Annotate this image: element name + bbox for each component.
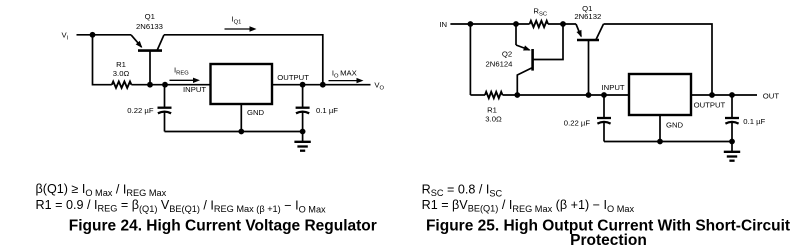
caption Figure 25 line 2 bbox=[570, 232, 647, 249]
wire IN to RSC bbox=[450, 23, 529, 25]
label VI bbox=[62, 31, 69, 42]
svg-text:R1 = 0.9 / IREG = β(Q1) VBE(Q1: R1 = 0.9 / IREG = β(Q1) VBE(Q1) / IREG M… bbox=[36, 198, 327, 215]
node C2 junction bbox=[300, 82, 306, 88]
formula beta(Q1) bbox=[36, 182, 167, 198]
label OUT bbox=[763, 91, 780, 100]
label OUTPUT right bbox=[694, 101, 726, 110]
node IN junction bbox=[468, 21, 474, 27]
svg-text:0.22 µF: 0.22 µF bbox=[127, 106, 154, 115]
capacitor C2 0.1uF bbox=[296, 85, 339, 132]
svg-text:INPUT: INPUT bbox=[183, 85, 206, 94]
svg-text:2N6124: 2N6124 bbox=[486, 60, 514, 69]
current arrow IQ1 bbox=[225, 15, 257, 32]
formula R1 right bbox=[422, 198, 635, 214]
node Q1 base junction bbox=[147, 82, 153, 88]
svg-text:RSC: RSC bbox=[533, 7, 547, 18]
svg-text:OUTPUT: OUTPUT bbox=[694, 101, 726, 110]
capacitor C4 0.1uF bbox=[725, 95, 766, 142]
wire ground rail bbox=[165, 131, 303, 133]
node C4 junction bbox=[729, 92, 735, 98]
node Q1 emitter junction bbox=[560, 21, 566, 27]
transistor Q1 2N6132 bbox=[574, 4, 603, 95]
caption Figure 25 line 1 bbox=[426, 217, 790, 234]
svg-text:OUT: OUT bbox=[763, 91, 780, 100]
svg-text:Q1: Q1 bbox=[145, 12, 155, 21]
node Q2 collector junction bbox=[514, 92, 520, 98]
label GND bbox=[247, 108, 265, 117]
svg-text:OUTPUT: OUTPUT bbox=[277, 73, 309, 82]
svg-text:RSC = 0.8 / ISC: RSC = 0.8 / ISC bbox=[422, 182, 503, 198]
wire Q1 collector to output node bbox=[164, 35, 323, 85]
node Q1 collector return junction bbox=[709, 92, 715, 98]
wire IN rail to R1 bbox=[470, 94, 485, 96]
svg-text:IQ1: IQ1 bbox=[232, 15, 242, 26]
wire GND pin bbox=[240, 104, 242, 132]
svg-text:R1: R1 bbox=[116, 60, 126, 69]
svg-text:R1 = βVBE(Q1) / IREG Max (β +1: R1 = βVBE(Q1) / IREG Max (β +1) − IO Max bbox=[422, 198, 635, 214]
svg-text:Q2: Q2 bbox=[502, 50, 512, 59]
ground bbox=[294, 132, 310, 151]
label INPUT right bbox=[602, 83, 625, 92]
svg-text:VI: VI bbox=[62, 31, 69, 42]
resistor R1 right bbox=[485, 92, 503, 124]
wire Q1 collector to output node bbox=[604, 24, 713, 95]
svg-text:Protection: Protection bbox=[570, 232, 647, 249]
node C3 junction bbox=[601, 92, 607, 98]
wire IN junction down to R1 bbox=[469, 24, 471, 95]
wire OUTPUT to OUT bbox=[691, 94, 757, 96]
label IN bbox=[439, 20, 447, 29]
svg-text:GND: GND bbox=[247, 108, 265, 117]
ground right bbox=[724, 142, 740, 161]
capacitor C1 0.22uF bbox=[127, 85, 171, 132]
svg-text:Figure 24. High Current Voltag: Figure 24. High Current Voltage Regulato… bbox=[69, 217, 377, 234]
wire OUTPUT to VO bbox=[272, 84, 371, 86]
svg-text:VO: VO bbox=[374, 81, 384, 92]
node Q1 base junction bbox=[586, 92, 592, 98]
svg-text:GND: GND bbox=[666, 121, 684, 130]
svg-text:IN: IN bbox=[439, 20, 447, 29]
svg-text:INPUT: INPUT bbox=[602, 83, 625, 92]
svg-text:3.0Ω: 3.0Ω bbox=[113, 69, 130, 78]
node ground junction right bbox=[729, 139, 735, 145]
wire VI to Q1 emitter bbox=[77, 34, 132, 36]
label GND right bbox=[666, 121, 684, 130]
node IQ1 return junction bbox=[320, 82, 326, 88]
regulator U2 box bbox=[629, 74, 691, 115]
wire VI junction down to R1 bbox=[93, 35, 112, 85]
node VI junction bbox=[90, 32, 96, 38]
label VO bbox=[374, 81, 384, 92]
node C1 junction bbox=[162, 82, 168, 88]
current arrow IO MAX bbox=[329, 69, 364, 84]
current arrow IREG bbox=[170, 65, 201, 83]
svg-text:0.1 µF: 0.1 µF bbox=[316, 106, 338, 115]
node GND junction right bbox=[657, 139, 663, 145]
wire RSC to Q1 emitter bbox=[548, 23, 576, 25]
formula RSC bbox=[422, 182, 503, 198]
svg-text:IO MAX: IO MAX bbox=[332, 69, 357, 80]
svg-text:0.1 µF: 0.1 µF bbox=[743, 117, 765, 126]
wire ground rail right bbox=[604, 141, 732, 143]
node GND junction bbox=[238, 129, 244, 135]
formula R1 bbox=[36, 198, 327, 215]
transistor Q1 2N6133 bbox=[131, 12, 164, 85]
svg-text:0.22 µF: 0.22 µF bbox=[564, 119, 591, 128]
label OUTPUT bbox=[277, 73, 309, 82]
resistor R1 bbox=[112, 60, 132, 88]
wire R1 to regulator INPUT bbox=[503, 94, 630, 96]
svg-text:2N6133: 2N6133 bbox=[136, 22, 163, 31]
transistor Q2 2N6124 bbox=[486, 24, 563, 95]
label INPUT bbox=[183, 85, 206, 94]
wire R1 to regulator INPUT bbox=[131, 84, 210, 86]
caption Figure 24 bbox=[69, 217, 377, 234]
node Q2 emitter junction bbox=[513, 21, 519, 27]
node ground junction bbox=[300, 129, 306, 135]
svg-text:IREG: IREG bbox=[174, 65, 189, 76]
capacitor C3 0.22uF bbox=[564, 95, 611, 142]
svg-text:β(Q1) ≥ IO Max / IREG Max: β(Q1) ≥ IO Max / IREG Max bbox=[36, 182, 167, 198]
resistor RSC bbox=[530, 7, 548, 28]
wire GND pin right bbox=[659, 115, 661, 142]
svg-text:3.0Ω: 3.0Ω bbox=[485, 114, 502, 123]
regulator U1 box bbox=[211, 64, 273, 104]
svg-text:2N6132: 2N6132 bbox=[574, 12, 601, 21]
